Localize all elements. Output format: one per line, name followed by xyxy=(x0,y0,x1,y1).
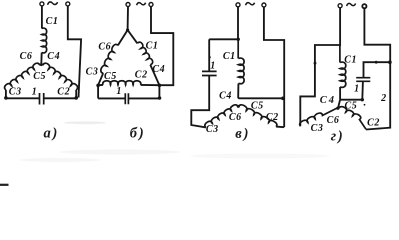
winding C6-C3 (scheme b) xyxy=(101,44,118,73)
wire g: right terminal down xyxy=(364,9,390,130)
scan smudge 3 xyxy=(190,154,330,159)
wire a: bottom right segment xyxy=(44,97,76,99)
node a bottom-left junction xyxy=(4,96,8,100)
svg-text:C3: C3 xyxy=(206,124,219,135)
node v left branch junction xyxy=(237,38,240,41)
terminal circle a-right xyxy=(66,2,70,6)
wire b: apex to C1 winding xyxy=(128,30,138,43)
svg-text:1: 1 xyxy=(32,86,38,97)
svg-text:C4: C4 xyxy=(320,95,336,106)
svg-text:1: 1 xyxy=(116,86,122,97)
AC source symbol v xyxy=(246,3,255,6)
wire b: base left stub xyxy=(98,84,103,86)
wire b: right terminal to corner xyxy=(151,7,173,86)
node g stray dot xyxy=(364,104,366,106)
svg-text:г): г) xyxy=(331,128,345,144)
svg-text:C4: C4 xyxy=(47,51,60,62)
wire v: left terminal down xyxy=(237,7,239,39)
terminal circle b-left xyxy=(126,3,130,7)
svg-text:1: 1 xyxy=(354,84,360,95)
scan mark bottom-left xyxy=(0,184,9,186)
node g left wire dot xyxy=(314,62,317,65)
svg-text:C6: C6 xyxy=(327,115,340,126)
svg-text:C5: C5 xyxy=(104,71,117,82)
node g right wire junction xyxy=(388,60,392,64)
wire g: bottom bus xyxy=(340,99,362,101)
wire b: C3 end to corner xyxy=(98,73,103,85)
terminal circle v-left xyxy=(236,3,240,7)
AC source symbol b xyxy=(137,3,146,6)
node b bottom-left corner xyxy=(96,84,100,88)
wire g: C1 bottom lead xyxy=(339,87,341,100)
node b capacitor-line junction xyxy=(158,96,162,100)
wire b: C4 end to corner xyxy=(150,65,159,86)
AC source symbol a xyxy=(48,2,58,5)
wire a: bottom left segment xyxy=(6,97,40,99)
capacitor 1 (scheme v) xyxy=(202,71,217,75)
svg-text:C2: C2 xyxy=(135,70,148,81)
wire a: C2 end down xyxy=(75,90,77,98)
wire a: left terminal to C1 xyxy=(41,6,43,29)
terminal circle a-left xyxy=(40,2,44,6)
svg-text:1: 1 xyxy=(210,61,216,72)
node g capacitor line dot xyxy=(375,61,378,64)
wire v: capacitor top lead xyxy=(208,39,210,71)
svg-text:C3: C3 xyxy=(86,66,99,77)
wire a: C1 to star point xyxy=(40,53,42,65)
wire a: right terminal to bottom xyxy=(68,6,81,98)
node v peak junction xyxy=(237,105,240,108)
svg-text:C5: C5 xyxy=(345,100,358,111)
terminal circle v-right xyxy=(262,3,266,7)
winding C1-C4 (scheme b) xyxy=(137,42,152,65)
winding C3-C4 (scheme g) xyxy=(300,108,338,126)
winding C6-C3 (scheme a) xyxy=(5,63,40,90)
capacitor 1 (scheme b) xyxy=(125,93,128,104)
svg-text:в): в) xyxy=(235,126,250,142)
terminal circle g-right xyxy=(362,4,366,8)
node g bus-capacitor junction xyxy=(361,98,364,101)
svg-text:б): б) xyxy=(130,126,146,142)
capacitor 1 (scheme a) xyxy=(40,93,44,105)
svg-text:C2: C2 xyxy=(367,118,380,129)
wire b: capacitor line left xyxy=(98,97,125,99)
wire g: capacitor bottom lead xyxy=(361,82,364,100)
svg-text:а): а) xyxy=(44,126,60,142)
winding C1 (scheme g) xyxy=(340,45,346,87)
svg-text:C1: C1 xyxy=(46,16,59,27)
svg-text:C6: C6 xyxy=(98,42,111,53)
svg-text:C4: C4 xyxy=(152,64,165,75)
node a star point xyxy=(40,63,43,66)
scan smudge 1 xyxy=(64,121,106,124)
svg-text:C6: C6 xyxy=(20,51,33,62)
wire v: capacitor bottom lead xyxy=(191,76,209,128)
wire v: C2 end to corner xyxy=(276,126,284,129)
wire b: left terminal to apex xyxy=(127,7,129,30)
wire v: right terminal down xyxy=(264,7,284,127)
scan smudge 4 xyxy=(20,158,100,162)
wire b: corner drop xyxy=(158,85,160,98)
wire b: apex to C6 winding xyxy=(118,30,128,45)
winding C5-C2 (scheme b) xyxy=(103,81,141,85)
winding C3-C4 (scheme v) xyxy=(205,105,238,128)
svg-text:C2: C2 xyxy=(266,112,279,123)
winding C5-C2 (scheme g) xyxy=(339,107,366,130)
svg-text:C1: C1 xyxy=(146,40,159,51)
svg-text:C5: C5 xyxy=(33,71,46,82)
svg-text:C1: C1 xyxy=(223,51,236,62)
svg-text:C3: C3 xyxy=(311,123,324,134)
wire a: C3 end down xyxy=(5,90,7,98)
node v right wire junction xyxy=(281,97,285,101)
wire g: bus to peak xyxy=(338,100,340,108)
terminal circle b-right xyxy=(149,3,153,7)
wire g: left terminal down xyxy=(300,8,340,126)
wire v: branch to capacitor xyxy=(209,38,238,40)
winding C1 (scheme v) xyxy=(238,39,244,83)
terminal circle g-left xyxy=(338,4,342,8)
wire b: left corner drop xyxy=(97,85,99,98)
svg-text:C4: C4 xyxy=(219,91,232,102)
node a bottom-right junction xyxy=(74,96,78,100)
winding C6/C5-C2 (scheme v) xyxy=(239,105,277,127)
svg-text:C1: C1 xyxy=(344,54,357,65)
svg-text:2: 2 xyxy=(380,93,387,104)
winding C4-C2 (scheme a) xyxy=(43,63,78,90)
winding C1 (scheme a) xyxy=(42,28,47,53)
svg-text:C2: C2 xyxy=(57,86,70,97)
node b bottom-right corner xyxy=(158,84,162,88)
wire b: base right stub xyxy=(141,84,160,86)
wire b: capacitor line right xyxy=(128,97,159,99)
svg-text:C5: C5 xyxy=(251,100,264,111)
capacitor 1 (scheme g) xyxy=(356,78,370,82)
node g peak junction xyxy=(336,107,339,110)
node b apex junction xyxy=(126,28,129,31)
wire g: capacitor top lead xyxy=(364,62,391,77)
wire v: C1 bottom to right wire xyxy=(238,84,283,99)
svg-text:C3: C3 xyxy=(9,86,22,97)
AC source symbol g xyxy=(347,3,356,6)
svg-text:C6: C6 xyxy=(229,112,242,123)
node v small blob xyxy=(209,56,211,58)
scan smudge 2 xyxy=(60,150,180,155)
